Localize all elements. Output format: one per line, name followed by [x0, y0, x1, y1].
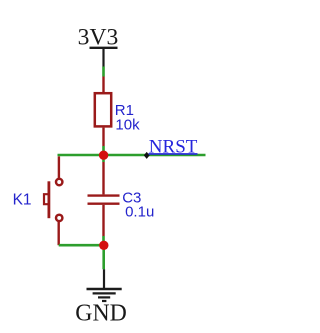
power bar symbol 3V3: [90, 47, 118, 49]
capacitor C3 pin 2: [102, 205, 104, 236]
ground bar 2: [93, 292, 116, 294]
svg-text:K1: K1: [13, 191, 32, 208]
switch K1 pin 1: [58, 156, 60, 179]
capacitor C3 bottom plate: [88, 202, 120, 204]
switch K1 actuator bracket: [44, 194, 49, 204]
resistor R1 body: [95, 93, 111, 126]
net label NRST underline: [149, 153, 198, 155]
svg-text:0.1u: 0.1u: [125, 204, 154, 221]
switch K1 top contact: [56, 179, 62, 185]
wire (junction to ground): [102, 245, 105, 269]
ground bar 1: [87, 288, 122, 290]
junction bottom node: [99, 241, 108, 250]
switch K1 pin 2: [58, 221, 60, 245]
svg-text:10k: 10k: [115, 117, 140, 134]
ground symbol stem: [103, 269, 105, 289]
net label anchor dot: [144, 152, 150, 159]
switch K1 actuator bar: [48, 181, 51, 218]
switch K1 bottom contact: [56, 215, 62, 221]
capacitor C3 pin 1: [102, 162, 104, 194]
power symbol stem: [102, 48, 104, 67]
resistor R1 pin 1: [102, 77, 104, 93]
ground bar 3: [98, 296, 110, 298]
wire (main horizontal NRST net): [58, 154, 206, 157]
wire (C3 to bottom junction): [102, 236, 105, 245]
capacitor C3 top plate: [88, 194, 120, 196]
wire (R1 to junction): [102, 146, 105, 152]
ground bar 4: [102, 300, 106, 302]
svg-text:3V3: 3V3: [78, 24, 119, 50]
junction top node: [99, 151, 108, 160]
wire (switch to bottom junction): [59, 244, 104, 247]
resistor R1 pin 2: [102, 128, 104, 146]
wire (power to R1 pin): [102, 67, 105, 77]
wire (junction to C3): [102, 155, 105, 162]
svg-text:GND: GND: [75, 301, 127, 327]
